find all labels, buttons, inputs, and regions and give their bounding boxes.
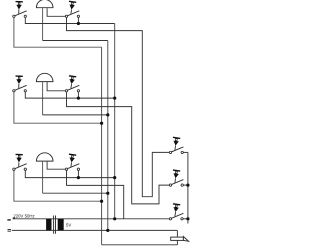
- wire S5 right contact down then right (net A3): [25, 171, 114, 178]
- wire S4 left contact down then right (net B2) to right column: [67, 92, 170, 204]
- wire bell B1 right lead to push-button S2: [47, 8, 65, 16]
- push-button S9: [169, 204, 183, 220]
- wire net C1 from bell B1 lead to vertical: [43, 40, 108, 42]
- junction S2 right on net A1: [77, 22, 80, 25]
- wire bell B2 left lead down to net C2: [42, 82, 44, 115]
- junction net A2 on bus x114.7: [113, 97, 116, 100]
- wire S3 left contact down then right (net D2): [14, 92, 101, 123]
- junction net C2 on bus x107.8: [106, 113, 109, 116]
- wire net C1 vertical bus x107.8: [107, 41, 109, 231]
- wire cable loop right edge down: [176, 230, 178, 244]
- wire S5 left contact down then right (net D3): [14, 171, 101, 202]
- junction bus x114.7 on secondary line: [113, 217, 116, 220]
- wire bell B2 right lead to push-button S4: [47, 82, 65, 91]
- push-button S5: [13, 154, 27, 170]
- wire S3 right contact down then right (net A2): [25, 92, 114, 98]
- transformer T1 core: [54, 216, 56, 234]
- wire S2 right contact down to net A1: [77, 18, 79, 24]
- junction S8 on bus: [186, 184, 189, 187]
- wire mains line L 220V: [13, 218, 170, 220]
- label phase terminal: [7, 218, 14, 221]
- transformer T1 primary winding: [46, 219, 51, 231]
- junction net D2 on bus x101.6: [100, 122, 103, 125]
- wire S1 left contact down then right (net D1): [14, 18, 102, 48]
- wire S6 left contact down then right (net B3): [67, 171, 124, 219]
- label neutral terminal: [8, 229, 12, 231]
- wire common bus x187.9: [187, 152, 189, 223]
- push-button S4: [65, 76, 79, 92]
- wire net D1 vertical bus x101.6: [101, 47, 103, 245]
- wire S9 right contact to bus: [183, 218, 188, 220]
- wire net C2 from bell B2 lead to vertical: [43, 114, 107, 116]
- bell B2: [36, 73, 53, 81]
- push-button S7: [169, 137, 183, 153]
- wire S2 left contact down then right (net B1) to right column: [67, 18, 170, 197]
- push-button S3: [13, 76, 27, 92]
- junction net D3 on bus x101.6: [100, 200, 103, 203]
- svg-text:5V: 5V: [66, 223, 71, 228]
- wire S8 right contact to bus: [184, 184, 188, 186]
- junction net A3 on bus x114.7: [113, 176, 116, 179]
- plug P1: [171, 237, 189, 242]
- wire bell B1 left lead down to net C1: [42, 8, 44, 40]
- wire S1 right contact down then right (net A1): [25, 18, 114, 24]
- junction S9 on bus: [186, 217, 189, 220]
- push-button S8: [169, 170, 183, 186]
- svg-text:220V 50Hz: 220V 50Hz: [13, 213, 34, 218]
- junction S6 right on net A3: [77, 176, 80, 179]
- wire cable loop bottom: [102, 244, 178, 246]
- wire S6 right contact down to net A3: [77, 171, 79, 178]
- push-button S2: [65, 1, 79, 17]
- push-button S6: [65, 154, 79, 170]
- wire S4 right contact down to net A2: [77, 92, 79, 98]
- push-button S1: [13, 2, 27, 18]
- wire mains line N 220V: [12, 229, 178, 231]
- wire bell B3 left lead down to net C3: [42, 162, 44, 194]
- wire S7 right contact to bus: [184, 151, 188, 153]
- transformer T1 secondary winding: [58, 219, 64, 231]
- bell B1: [36, 0, 53, 8]
- wire net C3 from bell B3 lead to vertical: [43, 192, 107, 194]
- junction bus x107.8 on secondary return: [106, 229, 109, 232]
- wire bell B3 right lead to push-button S6: [47, 162, 65, 170]
- junction S4 right on net A2: [77, 97, 80, 100]
- bell B3: [36, 153, 53, 161]
- junction net C3 on bus x107.8: [106, 192, 109, 195]
- wire net A1 vertical bus x114.7: [114, 24, 116, 219]
